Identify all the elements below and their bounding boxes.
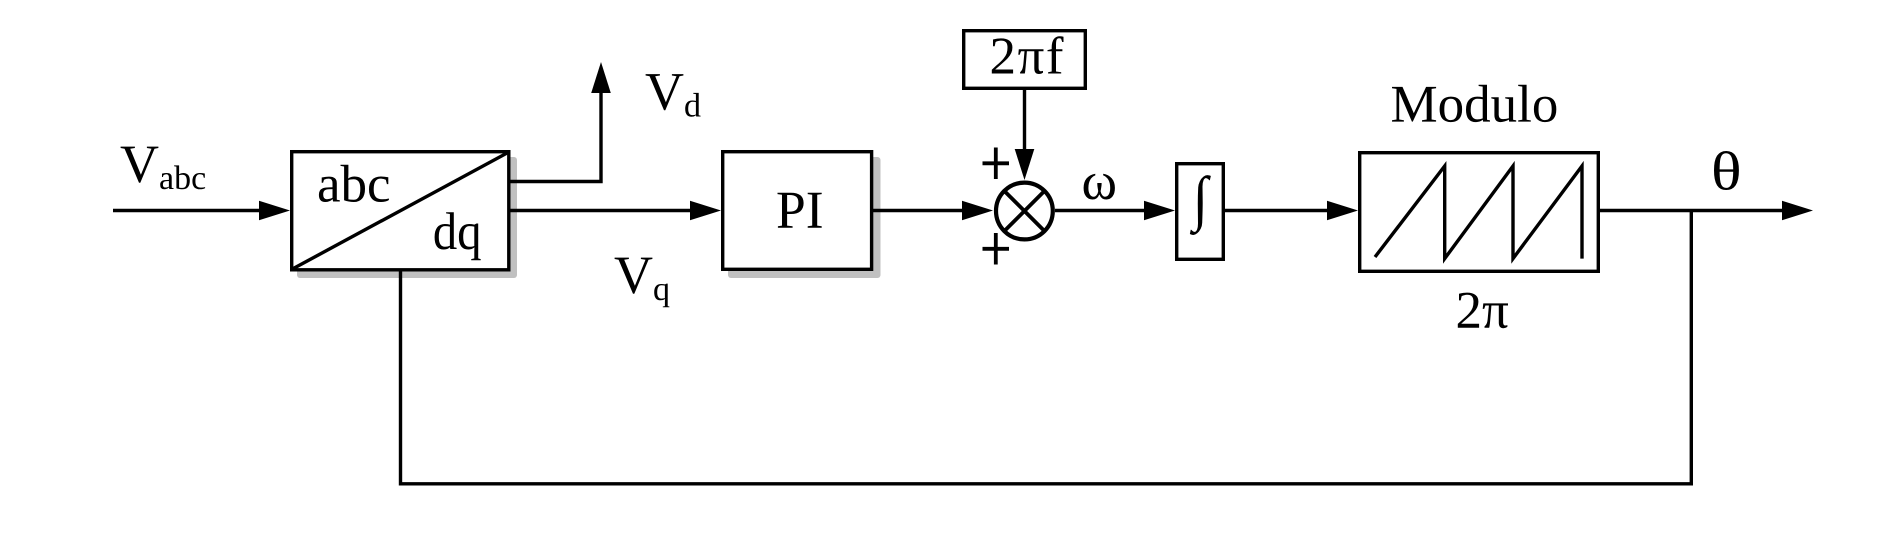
node theta label [1714,151,1739,190]
wire Vd branch [509,62,611,182]
summer plus bottom [983,233,1010,265]
node Vabc label [121,147,206,190]
block integrator [1177,164,1224,260]
block abc/dq transform [292,152,510,270]
wire 2pif to summer arrow [1015,90,1035,180]
block Modulo label [1392,85,1556,122]
wire output theta arrow [1600,201,1813,221]
block PI controller shadow [728,157,881,278]
wire integrator to modulo arrow [1225,201,1358,221]
block Modulo 2pi label [1458,293,1508,329]
wire input Vabc arrow [113,201,290,221]
node Vd label [646,74,701,117]
node omega label [1084,174,1115,200]
wire summer to integrator arrow [1055,201,1175,221]
block 2pif reference [964,31,1086,89]
wire PI to summer arrow [873,201,993,221]
block Modulo sawtooth [1360,153,1599,272]
block abc/dq transform shadow [297,157,517,278]
node Vq label [615,258,670,308]
summing junction [996,183,1053,240]
summer plus top [983,148,1010,180]
wire Vq to PI arrow [510,201,721,221]
block PI controller [723,152,872,270]
wire feedback theta to abc/dq [401,211,1692,484]
